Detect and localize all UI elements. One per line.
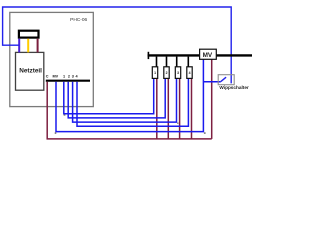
svg-text:2: 2 bbox=[166, 71, 168, 75]
wire yellow pin connector->Netzteil bbox=[27, 39, 29, 53]
switch blade bbox=[221, 77, 226, 81]
PHC-06 enclosure box bbox=[10, 12, 94, 106]
svg-text:Wippschalter: Wippschalter bbox=[219, 85, 249, 90]
left terminal bar bbox=[46, 80, 90, 82]
junction MV corner left bbox=[55, 132, 57, 134]
wire 1 blue: terminal to box1 bbox=[64, 78, 154, 113]
svg-text:1: 1 bbox=[154, 71, 156, 75]
svg-text:1: 1 bbox=[63, 75, 65, 79]
stub bar->box4 bbox=[187, 57, 189, 67]
wire maroon pin box3 to bus bbox=[179, 78, 181, 138]
MV box bbox=[200, 49, 217, 59]
right distribution bar bbox=[148, 54, 252, 56]
wire maroon pin box2 to bus bbox=[167, 78, 169, 138]
wire 2 blue: terminal to box2 bbox=[68, 78, 165, 118]
stub bar->box2 bbox=[166, 57, 168, 67]
box module 2 bbox=[164, 67, 169, 79]
wire blue loop: pin to top edge to switch bbox=[3, 7, 232, 83]
svg-text:MV: MV bbox=[203, 52, 213, 59]
box module 3 bbox=[175, 67, 180, 79]
junction wire3 corner bbox=[177, 123, 178, 124]
power supply Netzteil box bbox=[16, 52, 44, 90]
svg-text:2: 2 bbox=[68, 75, 70, 79]
box module 1 bbox=[152, 67, 157, 79]
wire blue pin connector->Netzteil bbox=[18, 39, 20, 53]
right bar end cap bbox=[147, 52, 149, 59]
junction MV corner right bbox=[204, 132, 206, 134]
wire 3 blue: terminal to box3 bbox=[73, 78, 177, 122]
connector plug on top of Netzteil bbox=[19, 31, 39, 38]
svg-text:4: 4 bbox=[75, 75, 78, 79]
svg-text:Netzteil: Netzteil bbox=[19, 68, 42, 75]
wire blue branch to rocker switch bbox=[203, 81, 220, 83]
wire maroon pin connector->Netzteil bbox=[37, 39, 39, 53]
wire C maroon bus bbox=[47, 82, 212, 139]
box module 4 bbox=[187, 67, 192, 79]
stub bar->box1 bbox=[156, 57, 158, 67]
wire maroon pin box1 to bus bbox=[156, 78, 158, 138]
svg-text:MV: MV bbox=[52, 75, 58, 79]
wire maroon pin box4 to bus bbox=[191, 78, 193, 138]
svg-text:PHC-06: PHC-06 bbox=[70, 17, 87, 23]
junction wire1 corner bbox=[64, 114, 66, 115]
svg-text:3: 3 bbox=[177, 71, 179, 75]
svg-text:3: 3 bbox=[72, 75, 74, 79]
svg-text:C: C bbox=[46, 75, 49, 79]
wire MV blue: terminal to MV box bbox=[56, 59, 203, 131]
svg-text:4: 4 bbox=[189, 71, 191, 75]
Wippschalter box bbox=[218, 75, 234, 85]
wire maroon MV-box pin down to bus bbox=[211, 59, 213, 139]
wire 4 blue: terminal to box4 bbox=[77, 78, 188, 126]
stub bar->box3 bbox=[176, 57, 178, 67]
